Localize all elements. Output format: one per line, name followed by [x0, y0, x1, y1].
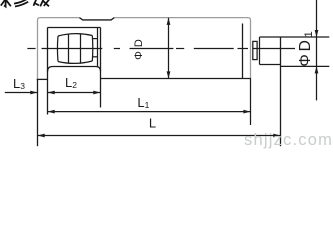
- shaft stub: [253, 41, 257, 59]
- barrel cap top: [92, 38, 97, 40]
- phiD bottom arrow: [167, 71, 171, 78]
- collar divider + extension line (L): [280, 37, 282, 146]
- terminal box bottom strap with drooping corners: [48, 67, 101, 72]
- L2 right arrow: [93, 91, 100, 95]
- terminal box left edge + extension line: [47, 28, 49, 115]
- phiD1 top arrow: [315, 30, 319, 37]
- extension line right of body (L1): [250, 79, 252, 125]
- collar+shaft top edge: [260, 36, 330, 38]
- barrel divider 2: [80, 34, 82, 64]
- svg-text:L2: L2: [65, 75, 77, 90]
- L2 left arrow: [48, 91, 55, 95]
- coil barrel bottom arc: [58, 61, 92, 63]
- svg-text:L: L: [149, 115, 156, 130]
- terminal box top edge: [48, 27, 101, 29]
- terminal box inner right line: [97, 28, 99, 67]
- svg-text:shjjzc.com: shjjzc.com: [244, 131, 333, 149]
- body outline (grey casing, left+top): [38, 18, 80, 80]
- extension line left (L3/L): [37, 79, 39, 146]
- top notch: [80, 18, 115, 20]
- collar bottom edge: [260, 64, 281, 66]
- L right arrow: [273, 134, 280, 138]
- dimension L3 line: [5, 92, 37, 94]
- shaft bottom edge: [281, 65, 330, 67]
- body outline (grey casing, top+right): [114, 18, 251, 79]
- dimension L2 line: [48, 92, 101, 94]
- L1 right arrow: [243, 110, 250, 114]
- svg-text:L1: L1: [137, 95, 149, 110]
- coil barrel right edge: [91, 36, 94, 62]
- L1 left arrow: [48, 110, 55, 114]
- dimension L line: [38, 135, 281, 137]
- center line (dash-dot axis): [27, 48, 295, 50]
- coil barrel left edge: [56, 36, 59, 62]
- coil barrel top arc: [58, 34, 92, 36]
- barrel divider 1: [68, 34, 70, 64]
- phiD top arrow: [167, 18, 171, 25]
- svg-text:L3: L3: [13, 76, 25, 91]
- phiD1 bottom arrow: [315, 66, 319, 73]
- collar left edge: [259, 37, 261, 65]
- svg-text:ΦD1: ΦD1: [297, 29, 315, 67]
- L3 arrow: [30, 91, 37, 95]
- dimension phiD1 line: [316, 0, 318, 100]
- title text (cropped chinese 术参数): [1, 0, 49, 7]
- bottom-left bridge: [37, 78, 48, 80]
- barrel cap bottom: [92, 56, 97, 58]
- svg-text:ΦD: ΦD: [133, 35, 145, 60]
- body bottom edge: [101, 78, 252, 80]
- dimension L1 line: [48, 111, 251, 113]
- dimension phiD line: [168, 18, 170, 79]
- L left arrow: [38, 134, 45, 138]
- end cap inner line: [242, 24, 244, 79]
- terminal box right edge + extension line: [100, 28, 102, 108]
